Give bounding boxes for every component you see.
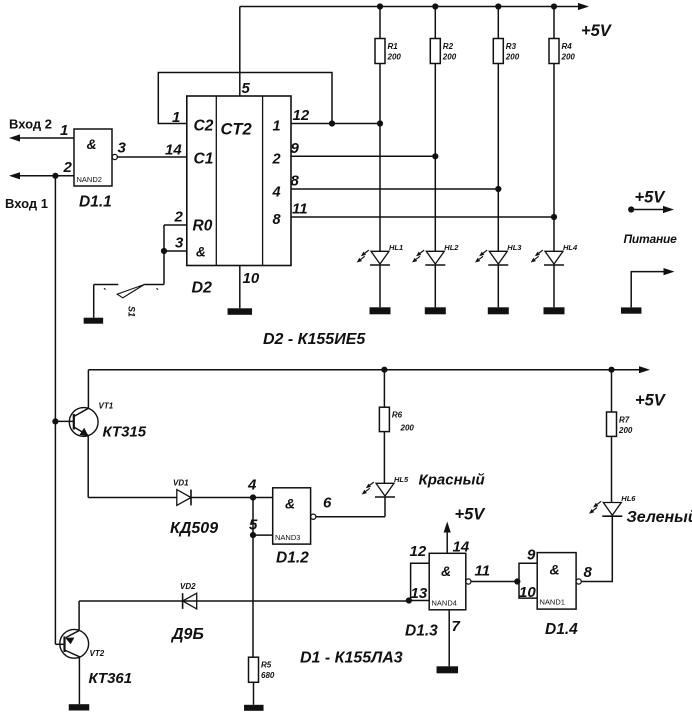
svg-text:R7: R7	[619, 416, 630, 425]
wire emitter to VD1	[88, 497, 177, 499]
svg-text:R6: R6	[392, 411, 403, 420]
svg-text:12: 12	[410, 543, 427, 560]
D1.2 output bubble	[311, 514, 316, 519]
svg-text:Д9Б: Д9Б	[170, 626, 204, 643]
wire pin9-pin10 jumper	[519, 563, 537, 598]
svg-text:КТ361: КТ361	[89, 670, 133, 687]
svg-text:HL5: HL5	[394, 475, 409, 484]
svg-text:680: 680	[261, 671, 275, 680]
switch S1	[144, 284, 164, 286]
wire R4 column to LED	[553, 64, 555, 252]
resistor R6 200	[383, 370, 385, 408]
wire +5V lower rail	[88, 369, 641, 371]
wire junction down to switch	[163, 251, 165, 285]
wire R2 column to LED	[434, 64, 436, 252]
svg-text:+5V: +5V	[581, 22, 613, 40]
diode VD2 D9B pointing left	[183, 593, 197, 609]
svg-text:D1.2: D1.2	[276, 550, 309, 567]
arrow ground legend	[664, 268, 675, 275]
svg-text:+5V: +5V	[455, 506, 487, 524]
svg-text:7: 7	[452, 618, 461, 635]
resistor R4 200	[549, 39, 559, 64]
led HL3	[489, 251, 507, 264]
svg-text:4: 4	[247, 477, 257, 494]
nand gate D1.1 body	[74, 129, 112, 186]
counter U D2 CT2 body	[187, 96, 291, 266]
svg-text:R0: R0	[193, 218, 213, 235]
wire pin2-pin3 jumper	[163, 225, 165, 251]
node VT1 base junction	[52, 418, 58, 424]
svg-text:13: 13	[411, 585, 428, 602]
wire R6 to HL5	[383, 432, 385, 484]
svg-text:HL4: HL4	[563, 243, 578, 252]
svg-text:HL6: HL6	[621, 494, 636, 503]
svg-text:NAND4: NAND4	[432, 599, 457, 608]
resistor R5 680	[249, 657, 259, 682]
nand gate D1.4 body	[537, 553, 576, 610]
wire HL4 to ground	[553, 265, 555, 307]
resistor R2 200	[430, 39, 440, 64]
svg-text:КТ315: КТ315	[103, 424, 147, 441]
wire +5V legend	[631, 209, 666, 211]
svg-text:R1: R1	[388, 42, 399, 51]
wire pin7 to ground	[448, 610, 450, 667]
node input junction pin2	[52, 173, 58, 179]
D1.3 output bubble	[466, 579, 471, 584]
node top rail junction R1	[377, 3, 383, 9]
svg-text:HL3: HL3	[507, 243, 522, 252]
wire R3 column upper	[497, 7, 499, 39]
resistor R7 200	[611, 370, 613, 412]
arrow Vhod 1	[9, 172, 20, 179]
svg-text:NAND3: NAND3	[275, 533, 300, 542]
VT2 emitter with arrow to top	[66, 601, 79, 638]
svg-text:1: 1	[60, 122, 68, 139]
svg-text:200: 200	[618, 426, 633, 435]
wire input pin2 Vhod1	[20, 175, 74, 177]
svg-text:S1: S1	[127, 306, 137, 317]
svg-text:CT2: CT2	[221, 121, 252, 139]
wire HL3 to ground	[497, 265, 499, 307]
svg-text:8: 8	[584, 564, 593, 581]
svg-text:D2: D2	[192, 280, 213, 297]
arrow lower rail end	[639, 366, 650, 373]
resistor R1 200	[375, 39, 385, 64]
wire feedback C2 to output-1	[158, 73, 332, 124]
wire R3 column to LED	[497, 64, 499, 252]
led HL6 green	[603, 503, 621, 516]
node pin4 junction	[250, 494, 256, 500]
ground legend bar	[621, 307, 642, 313]
wire VD1 to node 4	[191, 497, 273, 499]
svg-text:4: 4	[272, 185, 281, 201]
svg-text:D1 - К155ЛА3: D1 - К155ЛА3	[300, 650, 403, 667]
svg-text:1: 1	[273, 119, 281, 135]
VT2 collector down	[65, 650, 80, 704]
svg-text:6: 6	[323, 495, 332, 512]
wire pin14 vertical	[446, 530, 448, 553]
wire input pin1 Vhod2	[20, 137, 74, 139]
node on R2 column	[432, 153, 438, 159]
svg-text:Красный: Красный	[419, 472, 485, 489]
arrow pin14 up	[444, 522, 451, 533]
ground under CT2 pin10	[228, 308, 253, 315]
svg-text:Питание: Питание	[624, 232, 678, 246]
wire D1.2 output to HL5	[316, 516, 385, 518]
node on R4 column	[551, 214, 557, 220]
wire pin5 into D1.2	[253, 534, 273, 536]
svg-text:200: 200	[400, 424, 415, 433]
node R7 junction	[608, 367, 614, 373]
svg-text:2: 2	[63, 159, 73, 176]
wire HL1 to ground	[379, 265, 381, 307]
svg-text:2: 2	[174, 209, 184, 226]
wire R1 column to LED	[379, 64, 381, 252]
node top rail junction R4	[551, 3, 557, 9]
ground under HL1	[370, 307, 391, 314]
wire output 1 pin12 to R1	[291, 123, 380, 125]
svg-text:VD2: VD2	[180, 582, 196, 591]
wire R7 to HL6	[611, 436, 613, 502]
svg-text:9: 9	[527, 547, 536, 564]
wire VT1 emitter down	[87, 436, 89, 498]
arrow +5V top rail end	[578, 3, 589, 10]
wire R0 pin3	[164, 250, 187, 252]
svg-text:11: 11	[292, 201, 308, 218]
wire R4 column upper	[553, 7, 555, 39]
led HL5 red	[376, 483, 394, 496]
ground under R5	[244, 705, 263, 711]
arrow Vhod 2	[9, 134, 20, 141]
svg-text:D1.1: D1.1	[79, 194, 112, 211]
svg-text:&: &	[441, 563, 451, 579]
wire HL2 to ground	[434, 265, 436, 307]
arrow +5V legend	[663, 206, 674, 213]
node feedback junction on pin12 line	[329, 120, 335, 126]
node pin5 junction	[250, 532, 256, 538]
svg-text:HL2: HL2	[444, 243, 459, 252]
svg-text:D1.4: D1.4	[545, 621, 578, 638]
wire output 8 pin11 to R4	[291, 216, 554, 218]
D1.1 output bubble	[112, 154, 117, 159]
svg-text:VT2: VT2	[90, 649, 105, 658]
wire VD2 line from VT2 emitter to D1.3 pin13	[79, 600, 409, 602]
VT1 emitter with arrow	[74, 427, 88, 435]
svg-text:200: 200	[442, 53, 457, 62]
wire R0 pin2	[164, 224, 187, 226]
transistor Q VT1 KT315 circle	[69, 408, 98, 437]
svg-text:200: 200	[387, 53, 402, 62]
led HL4	[545, 251, 563, 264]
wire node5 down to R5	[252, 535, 254, 657]
VT1 collector	[74, 370, 89, 417]
svg-text:200: 200	[505, 53, 520, 62]
led HL2	[426, 251, 444, 264]
node on R1 column	[377, 120, 383, 126]
svg-text:200: 200	[561, 53, 576, 62]
wire +5V top rail	[240, 6, 581, 8]
CT2 internal divider left	[215, 96, 217, 266]
svg-text:КД509: КД509	[170, 520, 218, 537]
wire output 2 pin9 to R2	[291, 155, 435, 157]
svg-text:3: 3	[175, 235, 184, 252]
svg-text:R4: R4	[562, 42, 573, 51]
wire ground legend	[631, 272, 666, 308]
svg-text:2: 2	[272, 152, 281, 168]
svg-text:R3: R3	[506, 42, 517, 51]
wire pin5 vertical to CT2 top	[239, 7, 241, 97]
wire R2 column upper	[434, 7, 436, 39]
node on R3 column	[495, 186, 501, 192]
wire R1 column upper	[379, 7, 381, 39]
D1.4 output bubble	[576, 579, 581, 584]
ground under S1	[84, 318, 104, 324]
svg-text:VD1: VD1	[173, 479, 189, 488]
svg-text:HL1: HL1	[389, 243, 403, 252]
svg-text:&: &	[285, 496, 295, 512]
ground under VT2	[69, 704, 90, 710]
svg-text:VT1: VT1	[99, 402, 114, 411]
led HL1	[371, 251, 389, 264]
ground under HL4	[544, 307, 565, 314]
VT1 base bar	[73, 414, 75, 430]
wire VT2 base	[55, 643, 64, 645]
node pin13 junction	[406, 597, 412, 603]
wire VT1 base	[55, 420, 73, 422]
wire R5 to ground	[253, 682, 255, 705]
CT2 internal divider right	[262, 96, 264, 266]
svg-text:8: 8	[291, 173, 300, 190]
svg-text:10: 10	[243, 270, 260, 287]
svg-text:Вход 1: Вход 1	[5, 196, 48, 211]
ground under D1.3	[437, 666, 459, 673]
svg-text:14: 14	[165, 142, 182, 159]
svg-text:NAND1: NAND1	[540, 598, 565, 607]
wire pin12-pin13 jumper	[411, 563, 430, 600]
ground under HL2	[425, 307, 446, 314]
wire HL5 to output line	[384, 497, 386, 517]
svg-text:Зеленый: Зеленый	[627, 509, 692, 526]
svg-text:5: 5	[242, 80, 251, 97]
wire C1 input from D1.1 output	[117, 156, 187, 158]
node R6 junction	[381, 367, 387, 373]
svg-text:8: 8	[273, 212, 282, 228]
svg-text:R5: R5	[261, 661, 272, 670]
svg-text:1: 1	[172, 109, 180, 126]
svg-text:D2 - К155ИЕ5: D2 - К155ИЕ5	[263, 331, 366, 348]
svg-text:&: &	[550, 562, 560, 578]
wire output 11 to D1.4 inputs	[471, 581, 519, 583]
svg-text:NAND2: NAND2	[77, 175, 102, 184]
svg-text:+5V: +5V	[635, 189, 667, 207]
svg-text:12: 12	[293, 107, 310, 124]
wire output 8 to HL6 column	[581, 517, 612, 582]
nand gate D1.3 body	[429, 553, 466, 610]
svg-text:&: &	[87, 136, 97, 152]
wire node4 to node5 vertical	[252, 498, 254, 536]
svg-text:9: 9	[291, 140, 300, 157]
wire output 4 pin8 to R3	[291, 188, 498, 190]
svg-text:C2: C2	[194, 118, 214, 135]
node D1.4 input junction	[514, 578, 520, 584]
svg-text:C1: C1	[194, 151, 214, 168]
svg-text:&: &	[196, 245, 206, 260]
wire long vertical from Vhod1 down to VT2	[54, 176, 56, 645]
diode VD1 KD509	[177, 490, 191, 506]
svg-text:3: 3	[118, 140, 127, 157]
svg-text:R2: R2	[443, 42, 454, 51]
resistor R3 200	[493, 39, 503, 64]
transistor Q VT2 KT361 circle	[60, 629, 89, 658]
svg-text:D1.3: D1.3	[405, 623, 438, 640]
node top rail junction R3	[495, 3, 501, 9]
node pin3 junction	[161, 248, 167, 254]
nand gate D1.2 body	[273, 488, 311, 544]
svg-text:11: 11	[475, 563, 491, 580]
svg-text:10: 10	[519, 584, 536, 601]
svg-text:Вход 2: Вход 2	[9, 117, 52, 132]
svg-text:+5V: +5V	[635, 392, 667, 410]
VT2 base bar	[63, 637, 65, 653]
wire switch left post	[93, 285, 95, 318]
node top rail junction R2	[432, 3, 438, 9]
node +5V legend dot	[628, 206, 634, 212]
wire pin 10 to ground	[239, 266, 241, 309]
ground under HL3	[488, 307, 509, 314]
